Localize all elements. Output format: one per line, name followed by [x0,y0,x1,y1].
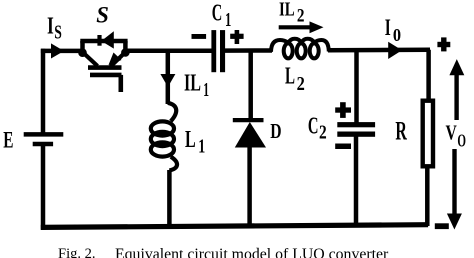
plus of output [437,37,450,51]
svg-text:S: S [96,2,109,27]
svg-text:L: L [285,64,295,90]
svg-text:2: 2 [319,123,327,144]
battery E [24,134,64,144]
node right [121,48,130,57]
wire R branch upper [426,50,431,99]
svg-text:I: I [47,14,54,40]
capacitor C2 plates [337,122,375,137]
svg-text:E: E [3,128,13,153]
svg-text:O: O [457,130,466,150]
svg-text:IL: IL [184,71,201,97]
plus of C2 [335,102,351,118]
wire L1 branch lower [167,170,172,229]
wire bottom rail [41,225,428,228]
arrow Is [51,43,64,58]
minus of C2 [335,144,351,150]
wire diode branch [80,39,127,44]
switch S (IGBT with antiparallel diode) [78,31,130,92]
svg-text:L: L [185,127,196,153]
node left [78,48,87,57]
svg-text:R: R [395,116,407,145]
gate tail [119,75,124,92]
diode of S: triangle [101,31,114,48]
svg-text:C: C [308,114,319,140]
svg-text:V: V [446,121,458,145]
arrow V0 down [447,149,462,230]
wire D branch lower [247,146,252,227]
wire switch-to-C1 [125,48,212,53]
svg-text:1: 1 [203,79,209,101]
svg-text:2: 2 [297,73,305,95]
wire L2-to-right-corner [328,48,430,53]
caption [58,246,95,258]
diode D [233,120,266,147]
svg-text:IL: IL [279,0,295,21]
transistor emitter arrow [109,53,122,66]
transistor bar 1 [88,65,122,70]
svg-text:0: 0 [393,25,401,45]
wire C2 branch lower [354,137,359,227]
wire C2 branch upper [354,50,359,122]
transistor slant left [83,53,98,67]
resistor R [423,101,433,167]
minus of C1 [192,34,207,39]
wire riser left [80,41,85,53]
svg-text:S: S [54,23,62,44]
wire D branch upper [248,51,253,120]
arrow I0 [388,42,402,59]
wire left vertical upper [41,49,46,133]
wire left vertical lower [41,144,46,229]
svg-text:D: D [270,119,281,143]
wire L1 branch upper [166,51,171,104]
wire riser right [123,41,128,53]
svg-text:1: 1 [225,9,231,31]
arrow IL2 [279,21,324,33]
capacitor C1 plates [211,30,225,72]
svg-text:2: 2 [297,7,305,27]
inductor L1 [151,103,177,171]
svg-text:1: 1 [198,136,205,158]
plus of C1 [230,30,243,44]
minus of output [435,223,449,229]
diode of S: cathode bar [97,35,101,46]
gate bar 2 [90,73,122,78]
wire C1-to-L2 [225,48,272,53]
arrow IL1 [160,74,175,87]
svg-text:I: I [385,15,391,41]
inductor L2 [271,39,329,59]
arrow V0 up [449,59,464,120]
svg-text:C: C [212,0,223,26]
transistor slant right [111,53,126,67]
wire R branch lower [425,168,430,226]
wire top-left segment [41,49,84,54]
